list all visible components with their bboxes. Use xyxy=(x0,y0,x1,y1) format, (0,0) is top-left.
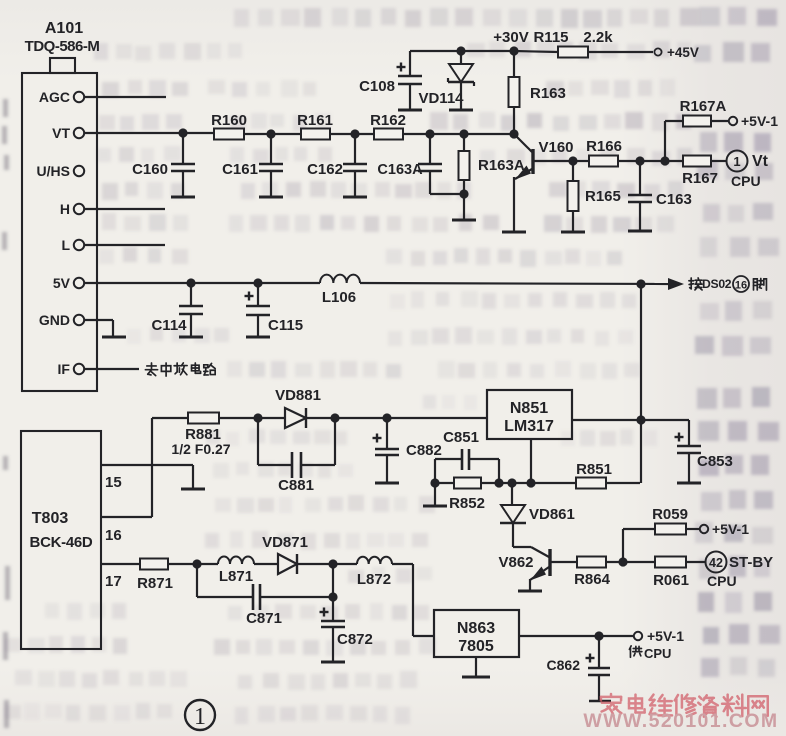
terminal +45V xyxy=(654,48,661,55)
transistor V862 xyxy=(513,546,531,548)
capacitor C862 electrolytic xyxy=(598,636,600,668)
transistor V160 xyxy=(514,134,532,152)
node VT junction xyxy=(178,128,187,137)
node after R161 xyxy=(350,129,359,138)
svg-text:C853: C853 xyxy=(697,453,733,470)
terminal +5V-1 (R167A) xyxy=(729,117,737,125)
svg-text:IF: IF xyxy=(58,361,71,377)
ground pin15 xyxy=(181,488,205,491)
svg-text:U/HS: U/HS xyxy=(37,163,70,179)
ground R165 xyxy=(561,231,585,234)
node VD881 anode xyxy=(253,413,262,422)
capacitor C872 electrolytic xyxy=(332,597,334,621)
svg-text:R160: R160 xyxy=(211,112,247,129)
svg-text:R851: R851 xyxy=(576,461,612,478)
terminal +5V-1 CPU supply xyxy=(634,632,642,640)
wire ADJ row xyxy=(435,482,576,484)
svg-text:DS02: DS02 xyxy=(702,277,732,291)
svg-text:C851: C851 xyxy=(443,429,479,446)
svg-text:C163A: C163A xyxy=(377,162,423,178)
capacitor C881 xyxy=(257,418,259,465)
svg-text:L871: L871 xyxy=(219,568,253,585)
node R163A top xyxy=(459,129,468,138)
svg-text:R163A: R163A xyxy=(478,157,525,174)
ground C853 xyxy=(677,482,701,485)
svg-text:CPU: CPU xyxy=(731,173,761,189)
wire R167A branch xyxy=(664,121,666,161)
wire LM317 ADJ xyxy=(530,439,532,483)
capacitor C163A xyxy=(429,134,431,164)
svg-text:R162: R162 xyxy=(370,112,406,129)
resistor R852 xyxy=(454,478,481,489)
label 供CPU xyxy=(629,646,641,657)
resistor R061 xyxy=(655,557,686,568)
figure number 1 xyxy=(185,700,215,730)
wire H stub xyxy=(84,208,165,210)
svg-text:C862: C862 xyxy=(547,657,581,673)
wire V862 emitter xyxy=(529,579,531,590)
resistor R162 xyxy=(374,129,403,140)
svg-text:+5V-1: +5V-1 xyxy=(647,628,684,644)
svg-text:WWW.520101.COM: WWW.520101.COM xyxy=(583,710,778,732)
resistor R161 xyxy=(301,129,330,140)
capacitor C114 xyxy=(190,283,192,306)
wire R163A to ground xyxy=(463,194,465,219)
capacitor C871 xyxy=(196,564,198,597)
capacitor C161 xyxy=(270,134,272,164)
svg-text:R061: R061 xyxy=(653,572,689,589)
svg-text:N863: N863 xyxy=(457,620,495,637)
svg-text:2.2k: 2.2k xyxy=(583,29,613,46)
svg-text:Vt: Vt xyxy=(752,153,769,170)
svg-text:16: 16 xyxy=(105,527,122,544)
label 去中放电路 (to IF amplifier) xyxy=(145,363,157,376)
ground R163A xyxy=(452,219,476,222)
resistor R864 xyxy=(577,557,606,568)
diode VD881 xyxy=(285,408,306,428)
svg-text:C881: C881 xyxy=(278,477,314,494)
svg-text:V160: V160 xyxy=(538,139,573,156)
transformer T803 BCK-46D block xyxy=(21,431,101,649)
node DS02 branch xyxy=(636,279,645,288)
resistor R160 xyxy=(214,129,244,140)
wire L872 to N863 xyxy=(392,563,413,565)
node C871 left xyxy=(192,559,201,568)
svg-text:C160: C160 xyxy=(132,161,168,178)
svg-text:R864: R864 xyxy=(574,571,611,588)
svg-text:1: 1 xyxy=(194,704,206,730)
diode VD871 xyxy=(278,554,297,574)
svg-text:LM317: LM317 xyxy=(504,418,554,435)
ground C882 xyxy=(375,482,399,485)
svg-text:H: H xyxy=(60,201,70,217)
wire pin16 riser xyxy=(151,418,153,517)
resistor R163 xyxy=(513,51,515,77)
watermark xyxy=(583,694,778,732)
inductor L106 xyxy=(320,275,360,283)
svg-text:L: L xyxy=(61,237,70,253)
regulator N851 LM317 xyxy=(487,390,572,439)
ground GND pin xyxy=(102,336,126,339)
svg-text:7805: 7805 xyxy=(458,638,494,655)
inductor L872 xyxy=(357,557,392,564)
svg-text:+5V-1: +5V-1 xyxy=(712,521,749,537)
wire +30V rail xyxy=(410,50,514,52)
ground C114 xyxy=(179,336,203,339)
wire LM317 output xyxy=(572,419,689,421)
pin 17 wire xyxy=(101,563,140,565)
node C115 xyxy=(253,278,262,287)
svg-text:CPU: CPU xyxy=(644,646,671,661)
svg-text:TDQ-586-M: TDQ-586-M xyxy=(25,38,100,55)
svg-text:L106: L106 xyxy=(322,289,356,306)
wire GND to ground xyxy=(84,319,113,321)
wire VT rail xyxy=(84,132,214,134)
wire R881 row xyxy=(152,417,188,419)
svg-text:R871: R871 xyxy=(137,575,173,592)
svg-text:C882: C882 xyxy=(406,442,442,459)
wire 5V rail xyxy=(84,282,320,284)
resistor R167A xyxy=(683,116,711,127)
svg-text:1: 1 xyxy=(733,154,740,169)
wire L871-VD871 xyxy=(254,563,278,565)
ground V862 xyxy=(518,590,542,593)
svg-text:C872: C872 xyxy=(337,631,373,648)
wire L stub xyxy=(84,244,165,246)
wire IF stub xyxy=(84,368,139,370)
resistor R166 xyxy=(573,160,589,162)
node +30V xyxy=(509,46,518,55)
inductor L871 xyxy=(218,557,254,564)
node LM317 output xyxy=(636,415,645,424)
capacitor C160 xyxy=(182,133,184,164)
ground C115 xyxy=(246,336,270,339)
svg-text:GND: GND xyxy=(39,312,70,328)
terminal +5V-1 (R059) xyxy=(700,525,708,533)
node C163 top xyxy=(635,156,644,165)
ground C851 left xyxy=(434,483,436,505)
svg-text:+5V-1: +5V-1 xyxy=(741,113,778,129)
wire VD871 out xyxy=(297,563,357,565)
node C851 left xyxy=(430,478,439,487)
node VD881 cathode xyxy=(330,413,339,422)
node C862 top xyxy=(594,631,603,640)
svg-text:+45V: +45V xyxy=(667,45,699,60)
svg-text:R059: R059 xyxy=(652,506,688,523)
svg-text:R115: R115 xyxy=(533,29,568,46)
label 接DS02 pin16 脚 xyxy=(689,278,702,290)
svg-text:C108: C108 xyxy=(359,78,395,95)
CPU pin 42 ST-BY xyxy=(706,552,727,573)
node C882 top xyxy=(382,413,391,422)
arrow to DS02 xyxy=(668,278,684,290)
wire AGC stub xyxy=(84,96,166,98)
node R163A bottom xyxy=(459,189,468,198)
svg-text:VT: VT xyxy=(52,125,70,141)
resistor R871 xyxy=(140,559,168,570)
ground VD114 xyxy=(449,109,473,112)
svg-text:17: 17 xyxy=(105,573,122,590)
node C872 junction xyxy=(328,592,337,601)
wire R059 branch xyxy=(622,529,624,562)
CPU pin 1 Vt xyxy=(727,151,748,172)
svg-text:C163: C163 xyxy=(656,191,692,208)
ground C161 xyxy=(259,196,283,199)
svg-text:R167A: R167A xyxy=(680,98,727,115)
wire V160 emitter xyxy=(513,177,515,231)
node R165 top xyxy=(568,156,577,165)
pin 16 wire xyxy=(101,516,152,518)
svg-text:C162: C162 xyxy=(307,161,343,178)
svg-text:CPU: CPU xyxy=(707,573,737,589)
wire N863 output xyxy=(519,635,634,637)
svg-text:R852: R852 xyxy=(449,495,485,512)
ground N863 xyxy=(475,657,477,676)
resistor R851 xyxy=(576,478,606,489)
ground C862 xyxy=(589,700,611,703)
svg-text:R167: R167 xyxy=(682,170,718,187)
ground V160 emitter xyxy=(502,231,526,234)
regulator N863 7805 xyxy=(434,610,519,657)
tuner A101 TDQ-586-M block xyxy=(50,58,75,73)
svg-text:R166: R166 xyxy=(586,138,622,155)
node C851 right xyxy=(494,478,503,487)
pin 15 wire xyxy=(101,464,193,466)
resistor R163A xyxy=(463,134,465,151)
svg-text:ST-BY: ST-BY xyxy=(729,554,773,571)
svg-text:C115: C115 xyxy=(268,317,303,334)
node VD114 top xyxy=(456,46,465,55)
ground C162 xyxy=(343,196,367,199)
node after R160 xyxy=(266,129,275,138)
svg-text:L872: L872 xyxy=(357,571,391,588)
svg-text:R163: R163 xyxy=(530,85,566,102)
resistor R167 xyxy=(665,160,683,162)
diode VD861 xyxy=(511,483,513,505)
resistor R165 xyxy=(572,161,574,181)
node C114 xyxy=(186,278,195,287)
capacitor C163 xyxy=(639,161,641,195)
svg-text:C161: C161 xyxy=(222,161,258,178)
capacitor C108 xyxy=(409,51,411,76)
svg-text:BCK-46D: BCK-46D xyxy=(30,534,93,551)
zener diode VD114 xyxy=(460,51,462,64)
node R167 branch xyxy=(660,156,669,165)
svg-text:15: 15 xyxy=(105,474,122,491)
svg-text:42: 42 xyxy=(709,556,723,570)
ground C108 xyxy=(398,109,422,112)
svg-text:A101: A101 xyxy=(45,20,83,37)
wire 5V bus down xyxy=(640,284,642,483)
node LM317 ADJ node xyxy=(526,478,535,487)
svg-text:T803: T803 xyxy=(32,510,69,527)
resistor R059 xyxy=(655,524,686,535)
svg-text:R165: R165 xyxy=(585,188,621,205)
svg-text:VD861: VD861 xyxy=(529,506,575,523)
capacitor C853 electrolytic xyxy=(688,420,690,446)
ground C872 xyxy=(321,661,345,664)
capacitor C115 electrolytic xyxy=(257,283,259,306)
capacitor C162 xyxy=(354,134,356,164)
node C872 top xyxy=(328,559,337,568)
svg-text:VD881: VD881 xyxy=(275,387,321,404)
svg-text:V862: V862 xyxy=(498,554,533,571)
capacitor C851 xyxy=(434,459,436,483)
svg-text:1/2 F0.27: 1/2 F0.27 xyxy=(171,441,230,457)
svg-text:C871: C871 xyxy=(246,610,282,627)
svg-text:AGC: AGC xyxy=(39,89,70,105)
ground C160 xyxy=(171,196,195,199)
svg-text:16: 16 xyxy=(735,280,747,292)
svg-text:5V: 5V xyxy=(53,275,71,291)
resistor R881 1/2 F0.27 xyxy=(188,413,219,424)
ground C163 xyxy=(628,230,652,233)
node C163A xyxy=(425,129,434,138)
svg-text:C114: C114 xyxy=(151,317,187,334)
svg-text:VD871: VD871 xyxy=(262,534,308,551)
svg-text:R161: R161 xyxy=(297,112,333,129)
node VD861 top xyxy=(507,478,516,487)
resistor R115 2.2k xyxy=(514,51,558,52)
node ST-BY branch xyxy=(618,557,627,566)
capacitor C882 electrolytic xyxy=(386,418,388,449)
node V160 collector junction xyxy=(509,129,518,138)
svg-text:N851: N851 xyxy=(510,400,548,417)
svg-text:VD114: VD114 xyxy=(418,90,464,107)
svg-text:+30V: +30V xyxy=(493,29,528,46)
